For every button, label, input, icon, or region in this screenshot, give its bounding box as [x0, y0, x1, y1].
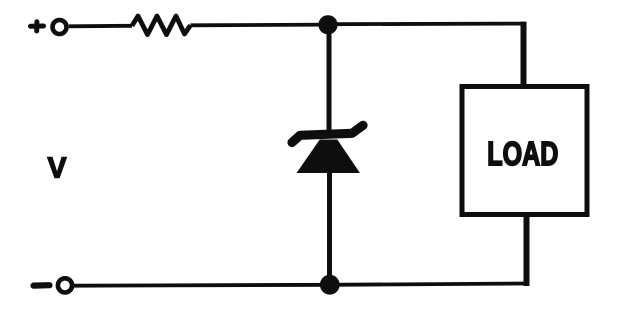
node: bottom junction dot — [320, 275, 340, 295]
wire: zener anode down to bottom junction — [327, 170, 332, 285]
input terminal circle (+) — [53, 20, 67, 34]
wire: right vertical down to LOAD top — [521, 22, 527, 87]
wire: top junction down to zener cathode — [327, 25, 332, 133]
node: top junction dot — [318, 15, 337, 34]
zener diode D1 anode triangle — [298, 140, 360, 173]
minus terminal label — [34, 282, 50, 289]
load box — [462, 87, 587, 215]
svg-text:V: V — [47, 152, 66, 184]
wire: resistor to top junction — [191, 23, 329, 27]
input terminal circle (-) — [58, 278, 72, 292]
wire: LOAD bottom to bottom wire — [524, 216, 530, 286]
wire: bottom junction to right corner — [330, 284, 530, 285]
plus terminal label — [31, 22, 44, 31]
zener diode D1 cathode bar (bent Z-bar) — [292, 125, 363, 142]
svg-text:LOAD: LOAD — [487, 136, 558, 173]
wire: bottom wire from - terminal to bottom junction — [74, 283, 330, 288]
wire: + terminal to resistor — [69, 24, 132, 28]
wire: top junction to right corner — [328, 22, 524, 26]
resistor R (zigzag) — [132, 16, 191, 35]
